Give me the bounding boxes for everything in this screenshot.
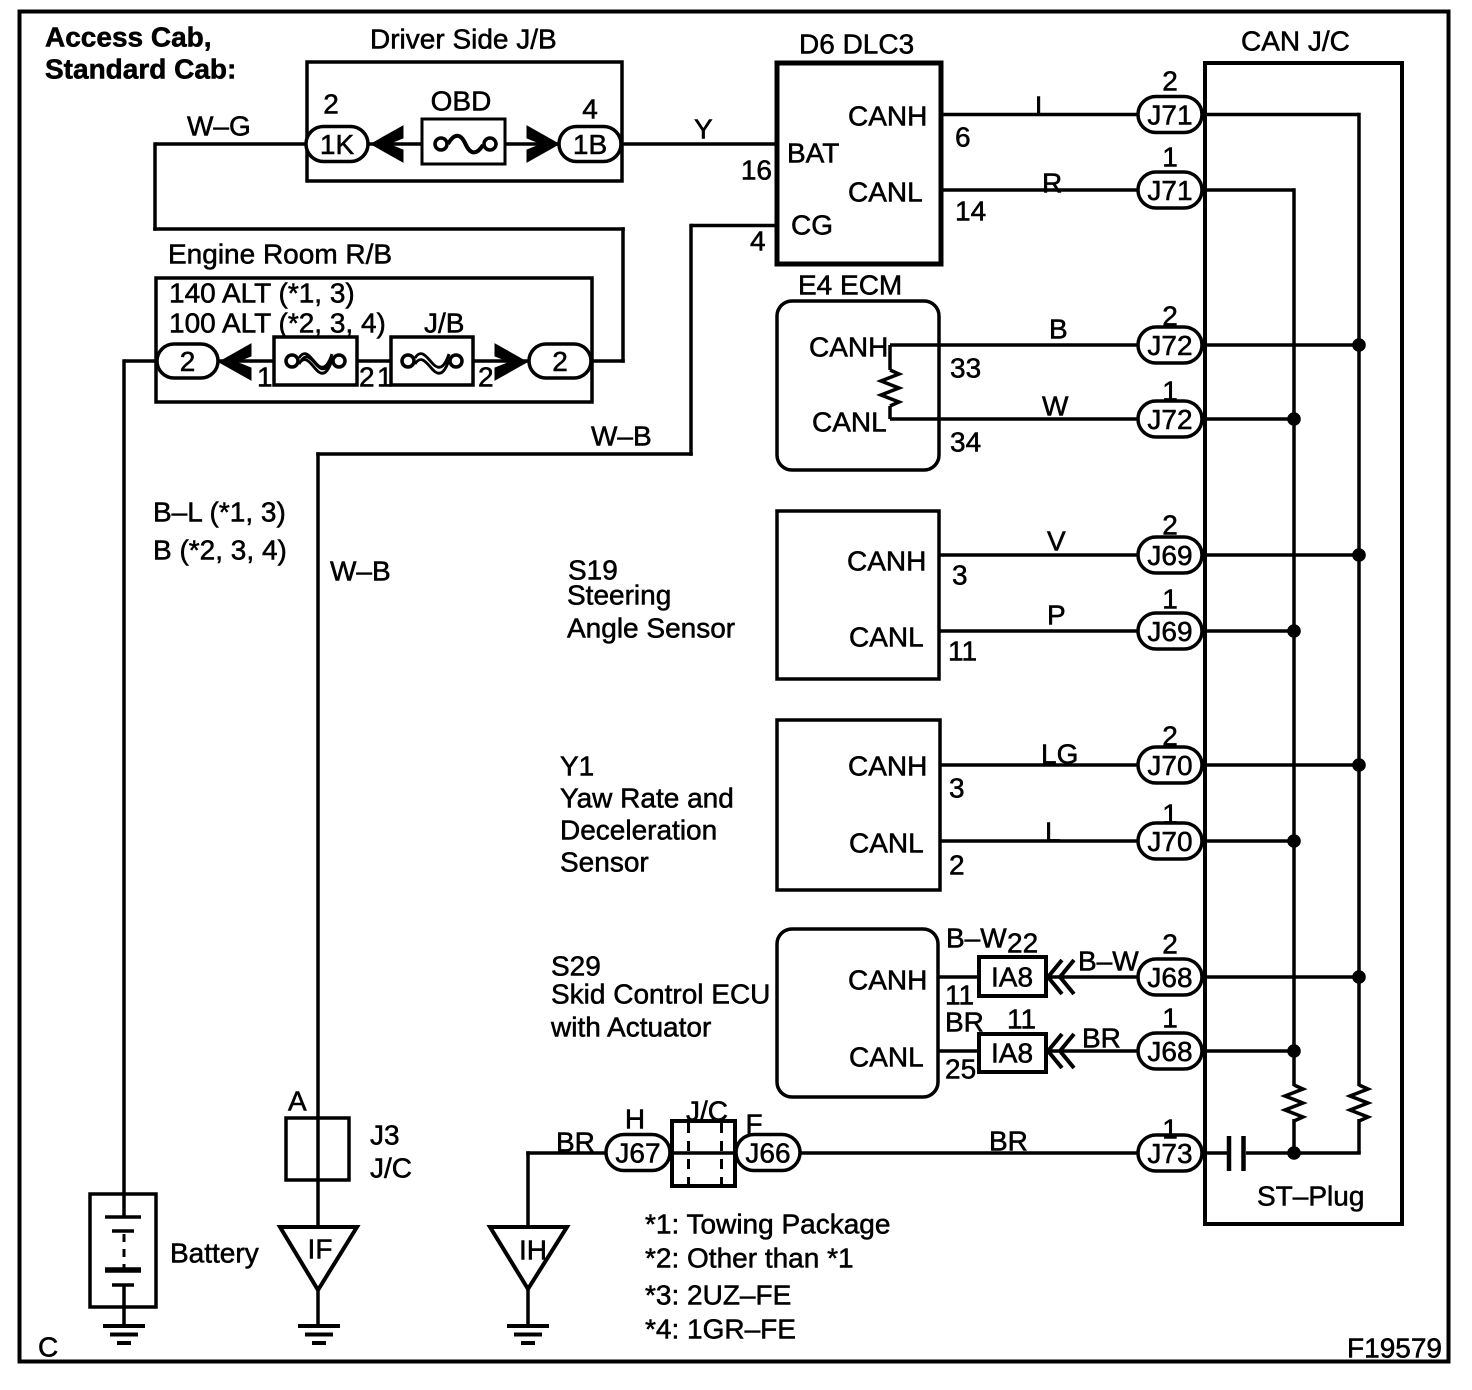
svg-text:CANH: CANH: [809, 332, 888, 363]
svg-text:J66: J66: [745, 1138, 790, 1169]
svg-text:2: 2: [478, 362, 494, 393]
connector IA8 upper: [979, 957, 1046, 996]
wire V S19 CANH to J69: [939, 553, 1359, 557]
svg-text:2: 2: [1162, 929, 1178, 960]
svg-text:B–L (*1, 3): B–L (*1, 3): [153, 497, 286, 528]
svg-text:*3: 2UZ–FE: *3: 2UZ–FE: [645, 1280, 791, 1311]
label J/C bottom: [686, 1096, 728, 1127]
junction connector J3 J/C square: [286, 1118, 349, 1180]
pin 22: [1007, 928, 1038, 959]
pin 2 of 1K: [323, 89, 339, 120]
pin 1 label fuse2 left: [377, 362, 393, 393]
svg-text:2: 2: [552, 346, 568, 377]
svg-text:J69: J69: [1147, 616, 1192, 647]
svg-text:W–B: W–B: [330, 556, 391, 587]
svg-text:BR: BR: [1082, 1023, 1121, 1054]
pin 11 IA8 lower: [1007, 1004, 1036, 1035]
svg-text:J3: J3: [370, 1120, 400, 1151]
wire CG of DLC3 to W-B run: [691, 224, 778, 456]
connector 1B: [559, 127, 621, 162]
svg-text:25: 25: [945, 1054, 976, 1085]
fuse OBD box: [422, 119, 505, 164]
wire R DLC3 CANL to J71 and bus: [941, 188, 1294, 192]
label Y1: [560, 751, 734, 878]
svg-text:F19579: F19579: [1347, 1333, 1442, 1364]
connector arrow into 1K: [371, 126, 403, 162]
label W-B upper: [591, 421, 652, 452]
svg-text:R: R: [1042, 168, 1062, 199]
svg-text:H: H: [625, 1104, 645, 1135]
svg-text:Battery: Battery: [170, 1238, 259, 1269]
svg-text:Angle Sensor: Angle Sensor: [567, 613, 735, 644]
svg-text:1: 1: [1162, 584, 1178, 615]
svg-text:34: 34: [950, 427, 981, 458]
svg-text:D6 DLC3: D6 DLC3: [799, 29, 914, 60]
caption Access Cab Standard Cab: [45, 22, 236, 85]
fuse ALT symbol: [286, 354, 345, 374]
junction connector J68 pin 1: [1138, 1003, 1202, 1070]
svg-text:4: 4: [582, 94, 598, 125]
pin F: [745, 1109, 762, 1140]
svg-text:F: F: [745, 1109, 762, 1140]
wire LG Y1 CANH to J70: [940, 763, 1359, 767]
junction dot at 1359,977: [1353, 971, 1366, 984]
wire W-B horizontal: [316, 452, 693, 456]
ground triangle IH: [490, 1227, 567, 1289]
svg-text:2: 2: [1162, 66, 1178, 97]
svg-text:*4: 1GR–FE: *4: 1GR–FE: [645, 1314, 796, 1345]
junction block Driver Side J/B: [307, 62, 622, 181]
svg-text:1: 1: [377, 362, 393, 393]
junction dot at 1294,1153: [1288, 1147, 1301, 1160]
junction dot at 1359,345: [1353, 339, 1366, 352]
svg-text:J70: J70: [1147, 826, 1192, 857]
junction connector CAN J/C box: [1205, 63, 1402, 1224]
fuse OBD symbol: [435, 136, 496, 153]
sensor Y1 box: [777, 720, 940, 890]
junction dot at 1294,419: [1288, 413, 1301, 426]
svg-text:BR: BR: [989, 1126, 1028, 1157]
junction connector J72 pin 2: [1138, 301, 1202, 364]
pin 11 S19: [948, 636, 977, 667]
label ST-Plug: [1257, 1181, 1364, 1212]
junction dot at 1294,841: [1288, 835, 1301, 848]
junction connector J70 pin 2: [1138, 721, 1202, 784]
pin name CANH Y1: [848, 751, 927, 782]
svg-text:1: 1: [1162, 142, 1178, 173]
svg-text:J70: J70: [1147, 750, 1192, 781]
junction J/C dashed box: [672, 1121, 735, 1186]
pin 14: [955, 196, 986, 227]
wire Engine Room fuse row: [156, 359, 592, 363]
pin 2 label fuse1 right: [359, 362, 375, 393]
label BR right: [1082, 1023, 1121, 1054]
junction connector J69 pin 2: [1138, 510, 1202, 574]
ground below IH: [507, 1326, 549, 1343]
svg-text:Driver Side J/B: Driver Side J/B: [370, 24, 557, 55]
svg-text:J69: J69: [1147, 540, 1192, 571]
capacitor in ST-plug: [1229, 1136, 1244, 1171]
svg-text:14: 14: [955, 196, 986, 227]
pin 4 of 1B: [582, 94, 598, 125]
svg-text:6: 6: [955, 122, 971, 153]
connector D6 DLC3: [777, 63, 941, 264]
label CAN J/C: [1241, 26, 1350, 57]
ground below battery: [103, 1326, 145, 1343]
svg-text:BAT: BAT: [787, 138, 839, 169]
wire W ECM CANL to J72: [890, 417, 1294, 421]
wire W-G from Driver Side J/B 1K to Engine Room R/B: [153, 142, 625, 363]
junction connector J68 pin 2: [1138, 929, 1202, 996]
bus 1 lower segment to J73 wire: [1292, 1119, 1296, 1153]
junction dot at 1359,555: [1353, 549, 1366, 562]
junction dot at 1294,1051: [1288, 1045, 1301, 1058]
pin name CANL ECM: [812, 407, 887, 438]
svg-text:CANL: CANL: [849, 622, 924, 653]
fuse J/B box: [391, 337, 473, 385]
label Driver Side J/B: [370, 24, 557, 55]
pin 4: [750, 226, 766, 257]
label L Y1: [1045, 817, 1061, 848]
svg-text:140 ALT (*1, 3): 140 ALT (*1, 3): [169, 278, 355, 309]
svg-text:IH: IH: [519, 1235, 547, 1266]
svg-text:J68: J68: [1147, 1036, 1192, 1067]
svg-text:2: 2: [1162, 301, 1178, 332]
svg-text:BR: BR: [945, 1007, 984, 1038]
svg-text:B–W: B–W: [946, 923, 1007, 954]
svg-text:2: 2: [949, 850, 965, 881]
label B (*2, 3, 4): [153, 535, 287, 566]
pin name CANH ECM: [809, 332, 888, 363]
svg-text:2: 2: [1162, 721, 1178, 752]
svg-text:Y1: Y1: [560, 751, 594, 782]
svg-text:Skid Control ECU: Skid Control ECU: [551, 979, 770, 1010]
svg-text:CANH: CANH: [848, 965, 927, 996]
ECM internal resistor: [881, 345, 899, 419]
svg-text:CAN J/C: CAN J/C: [1241, 26, 1350, 57]
label P: [1047, 600, 1066, 631]
pin name CANH: [848, 101, 927, 132]
label L: [1035, 91, 1051, 122]
svg-text:IA8: IA8: [991, 962, 1033, 993]
svg-text:22: 22: [1007, 928, 1038, 959]
relay block Engine Room R/B: [156, 278, 592, 402]
wire W-B vertical to J3 and IF: [316, 452, 320, 1228]
pin 25 S29: [945, 1054, 976, 1085]
svg-text:Sensor: Sensor: [560, 847, 649, 878]
junction dot at 1294,631: [1288, 625, 1301, 638]
svg-text:LG: LG: [1041, 739, 1078, 770]
notes: [645, 1209, 890, 1345]
svg-text:IF: IF: [308, 1234, 333, 1265]
label Engine Room R/B: [168, 239, 392, 270]
connector IA8 lower: [979, 1034, 1046, 1072]
pin name CANL: [848, 177, 923, 208]
wire BR J66 to J73: [800, 1151, 1227, 1155]
label B-L (*1, 3): [153, 497, 286, 528]
svg-text:CANH: CANH: [848, 101, 927, 132]
ECU S29 box: [777, 929, 938, 1097]
pin 33: [950, 353, 981, 384]
label W-B lower: [330, 556, 391, 587]
svg-text:Access Cab,: Access Cab,: [45, 22, 212, 53]
pin name CANL Y1: [849, 828, 924, 859]
svg-text:1: 1: [1162, 376, 1178, 407]
svg-text:J/C: J/C: [370, 1153, 412, 1184]
label D6 DLC3: [799, 29, 914, 60]
pin H: [625, 1104, 645, 1135]
terminating resistor 1: [1285, 1085, 1303, 1121]
svg-text:*2: Other than *1: *2: Other than *1: [645, 1243, 854, 1274]
pin 1 label: [257, 362, 273, 393]
wire B ECM CANH to J72: [890, 343, 1359, 347]
wire Driver Side J/B fuse row: [307, 142, 622, 146]
svg-text:11: 11: [1007, 1004, 1036, 1035]
label fuse 100 ALT: [169, 308, 386, 339]
svg-text:P: P: [1047, 600, 1066, 631]
svg-text:16: 16: [741, 155, 772, 186]
connector J66: [736, 1135, 800, 1171]
svg-text:CANH: CANH: [847, 546, 926, 577]
wire Y from 1B to DLC3 BAT: [620, 142, 778, 146]
fuse ALT box: [274, 337, 357, 385]
svg-text:with Actuator: with Actuator: [550, 1012, 711, 1043]
pin 2 label fuse2 right: [478, 362, 494, 393]
label BR mid: [989, 1126, 1028, 1157]
wire IH to ground: [526, 1289, 530, 1327]
connector J67: [606, 1135, 670, 1171]
connector 2 left: [157, 344, 218, 378]
pin name CANL S29: [849, 1042, 924, 1073]
svg-text:ST–Plug: ST–Plug: [1257, 1181, 1364, 1212]
svg-text:Standard Cab:: Standard Cab:: [45, 54, 236, 85]
label F19579: [1347, 1333, 1442, 1364]
label E4 ECM: [798, 270, 902, 301]
svg-text:L: L: [1045, 817, 1061, 848]
pin name BAT: [787, 138, 839, 169]
connector 1K: [306, 127, 368, 162]
fuse J/B symbol: [402, 354, 462, 374]
label J/B: [424, 308, 464, 339]
pin 16: [741, 155, 772, 186]
svg-text:B (*2, 3, 4): B (*2, 3, 4): [153, 535, 287, 566]
wire from capacitor to ST-plug resistors: [1246, 1151, 1361, 1155]
pin 3 S19: [952, 560, 968, 591]
label C: [38, 1332, 58, 1363]
svg-text:Yaw Rate and: Yaw Rate and: [560, 783, 734, 814]
label A: [288, 1086, 307, 1117]
svg-text:CG: CG: [791, 210, 833, 241]
label LG: [1041, 739, 1078, 770]
wire battery feed vertical: [124, 359, 158, 1218]
svg-text:CANH: CANH: [848, 751, 927, 782]
label Battery: [170, 1238, 259, 1269]
svg-text:IA8: IA8: [991, 1038, 1033, 1069]
connector arrow out to right 2: [495, 344, 527, 380]
wire L DLC3 CANH to J71 and bus: [941, 113, 1359, 117]
pin name CANH S19: [847, 546, 926, 577]
pin 6: [955, 122, 971, 153]
label V: [1047, 526, 1066, 557]
svg-text:W: W: [1042, 391, 1069, 422]
svg-text:2: 2: [359, 362, 375, 393]
svg-text:1: 1: [257, 362, 273, 393]
label S19: [567, 555, 735, 644]
svg-text:Steering: Steering: [567, 580, 671, 611]
svg-text:OBD: OBD: [431, 86, 492, 117]
label S29: [550, 951, 770, 1043]
svg-text:W–B: W–B: [591, 421, 652, 452]
svg-text:Deceleration: Deceleration: [560, 815, 717, 846]
svg-text:S29: S29: [551, 951, 601, 982]
sensor S19 box: [777, 511, 939, 679]
svg-text:1K: 1K: [320, 129, 355, 160]
svg-text:A: A: [288, 1086, 307, 1117]
svg-text:CANL: CANL: [848, 177, 923, 208]
svg-text:V: V: [1047, 526, 1066, 557]
pin 11 S29: [945, 980, 974, 1011]
junction connector J71 pin 1: [1138, 142, 1202, 209]
connector 2 right: [529, 344, 591, 378]
svg-text:1: 1: [1162, 1114, 1178, 1145]
pin name CANH S29: [848, 965, 927, 996]
svg-text:B: B: [1049, 314, 1068, 345]
wire P S19 CANL to J69: [939, 629, 1294, 633]
svg-text:J72: J72: [1147, 404, 1192, 435]
svg-text:J/B: J/B: [424, 308, 464, 339]
label J3 J/C: [370, 1120, 412, 1184]
label BR at IH: [556, 1127, 595, 1158]
svg-text:1B: 1B: [573, 129, 607, 160]
svg-text:1: 1: [1162, 799, 1178, 830]
label R: [1042, 168, 1062, 199]
shield mark lower: [1048, 1034, 1074, 1068]
svg-text:CANL: CANL: [812, 407, 887, 438]
connector arrow into left 2: [219, 344, 251, 380]
svg-text:3: 3: [952, 560, 968, 591]
connector arrow out to 1B: [527, 126, 559, 162]
junction connector J70 pin 1: [1138, 799, 1202, 860]
svg-text:Engine Room R/B: Engine Room R/B: [168, 239, 392, 270]
terminating resistor 2: [1350, 1085, 1368, 1121]
svg-text:33: 33: [950, 353, 981, 384]
svg-text:1: 1: [1162, 1003, 1178, 1034]
label OBD: [431, 86, 492, 117]
pin 34: [950, 427, 981, 458]
svg-text:100 ALT (*2, 3, 4): 100 ALT (*2, 3, 4): [169, 308, 386, 339]
ECU E4 ECM box: [777, 301, 939, 470]
wire IF to ground: [316, 1290, 320, 1327]
ground triangle IF: [280, 1227, 357, 1290]
battery plates: [105, 1194, 141, 1327]
svg-text:J/C: J/C: [686, 1096, 728, 1127]
svg-text:B–W: B–W: [1078, 946, 1139, 977]
svg-text:4: 4: [750, 226, 766, 257]
label W-G: [187, 111, 251, 142]
svg-text:2: 2: [1162, 510, 1178, 541]
pin 2 Y1: [949, 850, 965, 881]
pin 3 Y1: [949, 773, 965, 804]
shield mark upper: [1048, 960, 1074, 994]
CAN bus line 1 (inner vertical): [1292, 188, 1296, 1086]
svg-text:J67: J67: [615, 1138, 660, 1169]
svg-text:J71: J71: [1147, 100, 1192, 131]
svg-text:CANL: CANL: [849, 828, 924, 859]
wire B-W S29 CANH to IA8 and J68: [938, 975, 1359, 979]
label W: [1042, 391, 1069, 422]
svg-text:3: 3: [949, 773, 965, 804]
junction connector J69 pin 1: [1138, 584, 1202, 650]
junction dot at 1359,765: [1353, 759, 1366, 772]
ground below IF: [298, 1326, 340, 1343]
wire BR from IH ground point to J67: [526, 1151, 640, 1228]
label B-W right: [1078, 946, 1139, 977]
label fuse 140 ALT: [169, 278, 355, 309]
junction connector J73 pin 1: [1138, 1114, 1202, 1172]
svg-text:J71: J71: [1147, 175, 1192, 206]
label BR left: [945, 1007, 984, 1038]
junction connector J71 pin 2: [1138, 66, 1202, 133]
svg-text:BR: BR: [556, 1127, 595, 1158]
CAN bus line 2 (left vertical): [1357, 113, 1361, 1086]
label B-W left: [946, 923, 1007, 954]
svg-text:Y: Y: [694, 114, 713, 145]
label B: [1049, 314, 1068, 345]
svg-text:CANL: CANL: [849, 1042, 924, 1073]
svg-text:L: L: [1035, 91, 1051, 122]
svg-text:C: C: [38, 1332, 58, 1363]
wire through J/C junction to J66: [640, 1151, 800, 1155]
svg-text:E4 ECM: E4 ECM: [798, 270, 902, 301]
svg-text:J68: J68: [1147, 962, 1192, 993]
pin name CG: [791, 210, 833, 241]
battery box: [90, 1194, 156, 1307]
svg-text:J72: J72: [1147, 330, 1192, 361]
bus 2 lower segment to J73 wire: [1357, 1119, 1361, 1153]
wire L Y1 CANL to J70: [940, 839, 1294, 843]
svg-text:2: 2: [180, 346, 196, 377]
svg-text:*1: Towing Package: *1: Towing Package: [645, 1209, 890, 1240]
junction connector J72 pin 1: [1138, 376, 1202, 438]
svg-text:W–G: W–G: [187, 111, 251, 142]
wire BR S29 CANL to IA8 and J68: [938, 1049, 1294, 1053]
pin name CANL S19: [849, 622, 924, 653]
svg-text:11: 11: [948, 636, 977, 667]
label Y: [694, 114, 713, 145]
svg-text:2: 2: [323, 89, 339, 120]
